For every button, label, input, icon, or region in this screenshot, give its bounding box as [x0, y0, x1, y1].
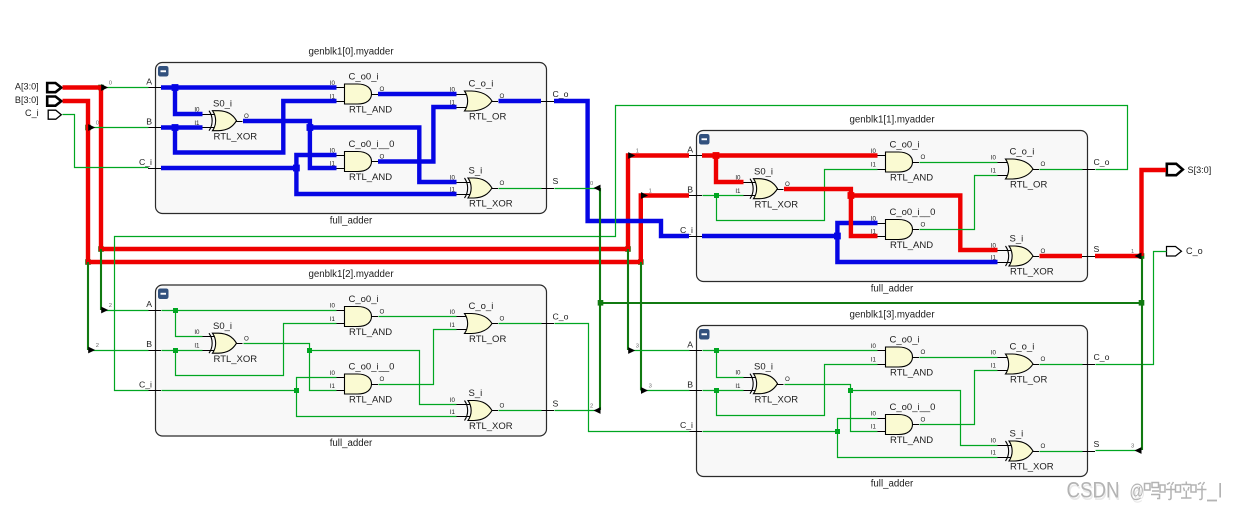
- svg-text:C_o0_i__0: C_o0_i__0: [349, 139, 395, 150]
- bus tap bit 1 S bit1 from genblk1[1].S: [1095, 249, 1142, 260]
- pin B of genblk1[2].myadder: [146, 339, 161, 351]
- xor gate S0_i (RTL_XOR) in genblk1[1]: [735, 166, 798, 210]
- wire A branch to S0_i I0 in genblk1[0]: [175, 88, 203, 115]
- svg-text:I0: I0: [330, 370, 336, 377]
- or gate C_o_i (RTL_OR) in genblk1[2]: [450, 301, 507, 345]
- xor gate S_i (RTL_XOR) in genblk1[0]: [450, 166, 513, 210]
- svg-text:RTL_OR: RTL_OR: [469, 334, 506, 345]
- wire C_o0__0 net to C_o_i I1 in genblk1[2]: [379, 330, 457, 385]
- svg-text:I0: I0: [871, 343, 877, 350]
- wire B to S0_i I1 in genblk1[1]: [703, 193, 744, 198]
- svg-text:RTL_AND: RTL_AND: [349, 105, 392, 116]
- svg-text:RTL_AND: RTL_AND: [349, 327, 392, 338]
- collapse icon of genblk1[3].myadder: [699, 329, 710, 340]
- and gate C_o0_i (RTL_AND) in genblk1[3]: [871, 335, 933, 379]
- svg-text:O: O: [244, 336, 249, 343]
- svg-text:O: O: [1041, 161, 1046, 168]
- svg-text:1: 1: [1131, 249, 1134, 255]
- pin S of genblk1[3].myadder: [1082, 439, 1100, 452]
- junction A bus at right trunk: [625, 246, 631, 252]
- svg-text:C_o: C_o: [553, 312, 569, 322]
- svg-text:O: O: [921, 349, 926, 356]
- svg-text:I0: I0: [450, 309, 456, 316]
- svg-text:C_o_i: C_o_i: [469, 301, 494, 312]
- svg-text:RTL_XOR: RTL_XOR: [755, 394, 799, 405]
- svg-text:C_o0_i__0: C_o0_i__0: [890, 207, 936, 218]
- svg-text:2: 2: [109, 303, 112, 309]
- wire C_o0__0 net to C_o_i I1 in genblk1[3]: [920, 371, 998, 425]
- pin C_o of genblk1[2].myadder: [541, 312, 569, 324]
- S bus trunk right vertical lower: [1141, 256, 1143, 450]
- wire C_o genblk1[3] to output port C_o: [1096, 252, 1167, 365]
- wire B[3:0] bus from port (red highlighted): [63, 101, 690, 262]
- junction B bus at bit0 tap: [85, 125, 91, 131]
- wire C_i branch to C_o0_i__0 I0 in genblk1[0]: [296, 155, 336, 168]
- or gate C_o_i (RTL_OR) in genblk1[0]: [450, 79, 507, 123]
- pin S of genblk1[1].myadder: [1082, 244, 1100, 257]
- wire S0 net S0_i O to C_o0_i__0 I1 in genblk1[1]: [784, 189, 878, 236]
- svg-text:I1: I1: [450, 409, 456, 416]
- svg-text:@: @: [1130, 482, 1145, 503]
- wire C_i to C_o0_i__0 in genblk1[3]: [703, 429, 841, 434]
- wire S0 net S0_i O to C_o0_i__0 I1 in genblk1[0]: [243, 121, 337, 168]
- bus tap bit 2 B bit2 to genblk1[2].B: [88, 343, 148, 354]
- pin C_i of genblk1[0].myadder: [139, 157, 161, 169]
- or gate C_o_i (RTL_OR) in genblk1[3]: [991, 342, 1048, 386]
- junction S bus left: [598, 300, 604, 306]
- svg-text:C_o_i: C_o_i: [1010, 147, 1035, 158]
- wire S0 net S0_i O to C_o0_i__0 I1 in genblk1[3]: [785, 385, 878, 432]
- svg-text:B[3:0]: B[3:0]: [15, 95, 39, 105]
- wire C_o output wire in genblk1[1]: [1040, 169, 1083, 171]
- wire S0 branch to S_i I0 in genblk1[3]: [851, 391, 998, 446]
- svg-text:C_o0_i__0: C_o0_i__0: [349, 362, 395, 373]
- wire B to S0_i I1 in genblk1[3]: [703, 388, 744, 393]
- svg-text:S_i: S_i: [1010, 429, 1024, 440]
- wire C_o0__0 net to C_o_i I1 in genblk1[0]: [378, 107, 457, 162]
- input port B[3:0]: [15, 95, 61, 106]
- pin B of genblk1[3].myadder: [687, 380, 702, 391]
- and gate C_o0_i__0 (RTL_AND) in genblk1[3]: [871, 402, 936, 446]
- bus tap bit 0 S bit0 from genblk1[0].S: [555, 181, 601, 192]
- wire C_i branch to S_i I1 in genblk1[1]: [837, 236, 997, 262]
- wire A branch to S0_i I0 in genblk1[3]: [717, 351, 744, 378]
- S bus trunk right vertical upper (red highlighted bit path): [1142, 170, 1167, 256]
- svg-text:RTL_AND: RTL_AND: [890, 173, 933, 184]
- svg-text:C_o0_i__0: C_o0_i__0: [890, 402, 936, 413]
- and gate C_o0_i__0 (RTL_AND) in genblk1[0]: [330, 139, 395, 183]
- pin C_i of genblk1[2].myadder: [139, 380, 161, 391]
- bus tap bit 2 A bit2 to genblk1[2].A: [101, 303, 148, 314]
- wire B to S0_i I1 in genblk1[2]: [162, 348, 203, 353]
- pin B of genblk1[0].myadder: [146, 117, 161, 128]
- svg-text:C_o0_i: C_o0_i: [349, 72, 379, 83]
- svg-text:RTL_AND: RTL_AND: [890, 240, 933, 251]
- pin S of genblk1[0].myadder: [541, 176, 559, 189]
- svg-text:RTL_AND: RTL_AND: [349, 395, 392, 406]
- svg-text:A: A: [146, 299, 152, 309]
- wire S0 branch to S_i I0 in genblk1[1]: [851, 196, 998, 251]
- svg-text:I0: I0: [991, 154, 997, 161]
- bus tap bit 3 A bit3 to genblk1[3].A: [628, 343, 689, 354]
- bus tap bit 0 B bit0 to genblk1[0].B: [88, 120, 148, 131]
- collapse icon of genblk1[1].myadder: [699, 134, 710, 145]
- pin C_o of genblk1[0].myadder: [541, 89, 569, 102]
- junction A bus at port corner: [98, 85, 104, 91]
- svg-text:S_i: S_i: [1010, 234, 1024, 245]
- svg-text:RTL_XOR: RTL_XOR: [214, 131, 258, 142]
- pin C_o of genblk1[3].myadder: [1082, 352, 1110, 365]
- bus tap bit 1 A bit1 to genblk1[1].A: [628, 148, 639, 159]
- junction S bus right: [1139, 300, 1145, 306]
- svg-text:3: 3: [636, 343, 639, 349]
- bus tap bit 2 S bit2 from genblk1[2].S: [555, 403, 601, 414]
- wire C_i to C_o0_i__0 in genblk1[0]: [161, 165, 300, 172]
- svg-text:S0_i: S0_i: [213, 98, 232, 109]
- wire C_i branch to S_i I1 in genblk1[0]: [296, 168, 456, 194]
- svg-text:I0: I0: [871, 410, 877, 417]
- svg-text:1: 1: [649, 188, 652, 194]
- svg-text:C_o: C_o: [553, 89, 569, 99]
- input port C_i: [25, 108, 61, 119]
- svg-text:I1: I1: [871, 423, 877, 430]
- svg-text:O: O: [500, 316, 505, 323]
- wire A to C_o0_i I0 in genblk1[3]: [703, 348, 878, 353]
- svg-text:genblk1[2].myadder: genblk1[2].myadder: [308, 269, 394, 280]
- wire S output wire in genblk1[0]: [499, 188, 542, 190]
- junction S bus at bit1 tap: [1139, 253, 1145, 259]
- svg-text:O: O: [380, 376, 385, 383]
- svg-text:I0: I0: [330, 302, 336, 309]
- svg-text:B: B: [146, 339, 152, 349]
- wire C_o0 net to C_o_i I0 in genblk1[2]: [379, 316, 457, 318]
- svg-text:I1: I1: [330, 316, 336, 323]
- full_adder module instance genblk1[0].myadder: [156, 46, 547, 226]
- svg-text:S0_i: S0_i: [754, 166, 773, 177]
- A bus trunk down to genblk1[3]: [627, 249, 629, 350]
- wire C_i branch to C_o0_i__0 I0 in genblk1[3]: [838, 419, 878, 432]
- svg-text:A[3:0]: A[3:0]: [15, 82, 39, 92]
- svg-text:S0_i: S0_i: [213, 321, 232, 332]
- output port C_o: [1167, 246, 1203, 256]
- svg-text:C_i: C_i: [139, 157, 152, 167]
- svg-text:O: O: [500, 180, 505, 187]
- and gate C_o0_i (RTL_AND) in genblk1[0]: [330, 72, 392, 116]
- svg-text:C_o_i: C_o_i: [469, 79, 494, 90]
- svg-text:genblk1[1].myadder: genblk1[1].myadder: [849, 114, 935, 125]
- svg-text:B: B: [687, 380, 693, 390]
- wire A branch to S0_i I0 in genblk1[1]: [716, 156, 744, 183]
- svg-text:2: 2: [590, 403, 593, 409]
- svg-text:C_i: C_i: [25, 108, 39, 118]
- and gate C_o0_i (RTL_AND) in genblk1[1]: [871, 140, 933, 184]
- svg-text:O: O: [1041, 356, 1046, 363]
- svg-text:RTL_AND: RTL_AND: [349, 172, 392, 183]
- pin A of genblk1[3].myadder: [687, 340, 702, 351]
- bus tap bit 3 B bit3 to genblk1[3].B: [641, 383, 690, 394]
- svg-text:RTL_XOR: RTL_XOR: [755, 199, 799, 210]
- svg-text:A: A: [687, 145, 693, 155]
- svg-text:0: 0: [109, 80, 112, 86]
- svg-text:I1: I1: [450, 322, 456, 329]
- watermark CSDN @呜呼啦呼_I: [1067, 478, 1222, 505]
- A bus trunk down to genblk1[2]: [100, 249, 102, 310]
- full_adder module instance genblk1[3].myadder: [697, 309, 1088, 489]
- junction B bus at left trunk: [85, 259, 91, 265]
- wire C_o output wire in genblk1[3]: [1040, 364, 1083, 366]
- xor gate S0_i (RTL_XOR) in genblk1[3]: [735, 361, 798, 405]
- full_adder module instance genblk1[2].myadder: [156, 269, 547, 449]
- xor gate S0_i (RTL_XOR) in genblk1[2]: [194, 321, 257, 365]
- full_adder module instance genblk1[1].myadder: [697, 114, 1088, 294]
- svg-text:S: S: [1094, 439, 1100, 449]
- B bus trunk down to genblk1[3]: [640, 262, 642, 390]
- svg-text:genblk1[3].myadder: genblk1[3].myadder: [849, 309, 935, 320]
- wire C_i branch to C_o0_i__0 I0 in genblk1[1]: [837, 223, 877, 236]
- wire S output wire in genblk1[3]: [1040, 451, 1083, 453]
- wire S0 branch to S_i I0 in genblk1[0]: [310, 128, 457, 183]
- svg-text:O: O: [500, 403, 505, 410]
- collapse icon of genblk1[0].myadder: [158, 66, 169, 77]
- svg-text:B: B: [687, 185, 693, 195]
- pin A of genblk1[0].myadder: [146, 77, 161, 88]
- svg-text:S: S: [553, 399, 559, 409]
- wire S output wire in genblk1[2]: [499, 410, 542, 412]
- svg-text:RTL_OR: RTL_OR: [1010, 180, 1047, 191]
- svg-text:A: A: [687, 340, 693, 350]
- svg-text:C_o_i: C_o_i: [1010, 342, 1035, 353]
- svg-text:I0: I0: [194, 329, 200, 336]
- svg-text:0: 0: [96, 120, 99, 126]
- svg-text:I0: I0: [735, 369, 741, 376]
- svg-text:RTL_XOR: RTL_XOR: [1010, 267, 1054, 278]
- svg-text:I1: I1: [194, 342, 200, 349]
- svg-text:RTL_OR: RTL_OR: [1010, 375, 1047, 386]
- wire C_i from port to genblk1[0]: [63, 115, 149, 168]
- svg-text:RTL_AND: RTL_AND: [890, 435, 933, 446]
- wire carry C_o genblk1[1] to C_i genblk1[2]: [115, 106, 1128, 391]
- wire A[3:0] bus from port (red highlighted): [63, 88, 690, 250]
- svg-text:I1: I1: [991, 362, 997, 369]
- svg-text:C_o0_i: C_o0_i: [890, 140, 920, 151]
- svg-text:C_o: C_o: [1186, 246, 1203, 256]
- wire C_i to C_o0_i__0 in genblk1[2]: [162, 388, 300, 393]
- svg-text:S0_i: S0_i: [754, 361, 773, 372]
- svg-text:C_i: C_i: [680, 225, 693, 235]
- wire C_i to C_o0_i__0 in genblk1[1]: [702, 233, 841, 240]
- svg-text:B: B: [146, 117, 152, 127]
- svg-text:I1: I1: [330, 383, 336, 390]
- bus tap bit 0 A bit0 to genblk1[0].A: [101, 80, 148, 91]
- wire S0 branch to S_i I0 in genblk1[2]: [310, 351, 457, 405]
- svg-text:O: O: [921, 154, 926, 161]
- wire carry C_o genblk1[2] to C_i genblk1[3]: [555, 324, 690, 432]
- svg-text:I1: I1: [991, 449, 997, 456]
- wire A to C_o0_i I0 in genblk1[2]: [162, 308, 337, 313]
- svg-text:CSDN: CSDN: [1067, 478, 1120, 503]
- wire B branch to C_o0_i I1 in genblk1[0]: [175, 101, 337, 153]
- pin C_i of genblk1[3].myadder: [680, 420, 702, 432]
- svg-text:I1: I1: [991, 167, 997, 174]
- pin C_o of genblk1[1].myadder: [1082, 157, 1110, 170]
- bus tap bit 1 B bit1 to genblk1[1].B: [641, 188, 652, 199]
- xor gate S_i (RTL_XOR) in genblk1[2]: [450, 388, 513, 432]
- svg-text:I0: I0: [991, 349, 997, 356]
- svg-text:genblk1[0].myadder: genblk1[0].myadder: [308, 46, 394, 57]
- junction A bus at left trunk: [98, 246, 104, 252]
- svg-text:C_o0_i: C_o0_i: [349, 294, 379, 305]
- svg-text:O: O: [921, 222, 926, 229]
- wire B to S0_i I1 in genblk1[0]: [161, 124, 203, 131]
- svg-text:I1: I1: [871, 356, 877, 363]
- svg-text:3: 3: [1131, 443, 1134, 449]
- svg-text:full_adder: full_adder: [871, 478, 914, 489]
- svg-text:RTL_XOR: RTL_XOR: [1010, 462, 1054, 473]
- wire S0 net S0_i O to C_o0_i__0 I1 in genblk1[2]: [244, 344, 337, 391]
- svg-text:I0: I0: [991, 437, 997, 444]
- xor gate S_i (RTL_XOR) in genblk1[1]: [991, 234, 1054, 278]
- wire C_o output wire in genblk1[0]: [499, 99, 542, 103]
- svg-text:O: O: [1041, 443, 1046, 450]
- svg-text:RTL_AND: RTL_AND: [890, 368, 933, 379]
- svg-text:2: 2: [96, 343, 99, 349]
- svg-text:RTL_XOR: RTL_XOR: [214, 354, 258, 365]
- junction B bus at right trunk: [638, 259, 644, 265]
- wire C_o0 net to C_o_i I0 in genblk1[1]: [920, 162, 998, 164]
- wire S output wire in genblk1[1]: [1040, 254, 1083, 258]
- svg-text:C_o: C_o: [1094, 352, 1110, 362]
- svg-text:full_adder: full_adder: [330, 438, 373, 449]
- pin A of genblk1[2].myadder: [146, 299, 161, 311]
- and gate C_o0_i__0 (RTL_AND) in genblk1[1]: [871, 207, 936, 251]
- svg-text:1: 1: [636, 148, 639, 154]
- svg-text:RTL_XOR: RTL_XOR: [469, 421, 513, 432]
- wire C_o0 net to C_o_i I0 in genblk1[3]: [920, 357, 998, 359]
- wire B branch to C_o0_i I1 in genblk1[3]: [717, 365, 878, 416]
- wire A to C_o0_i I0 in genblk1[0]: [161, 84, 337, 91]
- bus tap bit 3 S bit3 from genblk1[3].S: [1096, 443, 1142, 454]
- wire B branch to C_o0_i I1 in genblk1[2]: [176, 324, 337, 376]
- xor gate S0_i (RTL_XOR) in genblk1[0]: [194, 98, 257, 142]
- svg-text:full_adder: full_adder: [330, 215, 373, 226]
- svg-text:S: S: [1094, 244, 1100, 254]
- svg-text:I1: I1: [871, 161, 877, 168]
- S bus trunk horizontal: [600, 302, 1142, 304]
- wire A to C_o0_i I0 in genblk1[1]: [702, 152, 878, 159]
- svg-text:O: O: [785, 376, 790, 383]
- and gate C_o0_i__0 (RTL_AND) in genblk1[2]: [330, 362, 395, 406]
- wire C_i branch to S_i I1 in genblk1[2]: [297, 391, 457, 417]
- collapse icon of genblk1[2].myadder: [158, 289, 169, 300]
- svg-text:C_o: C_o: [1094, 157, 1110, 167]
- svg-text:S[3:0]: S[3:0]: [1188, 165, 1212, 175]
- output port S[3:0]: [1167, 164, 1211, 175]
- wire C_i branch to C_o0_i__0 I0 in genblk1[2]: [297, 378, 337, 391]
- svg-text:0: 0: [590, 181, 593, 187]
- wire A branch to S0_i I0 in genblk1[2]: [176, 311, 203, 337]
- wire C_o output wire in genblk1[2]: [499, 323, 542, 325]
- S bus trunk left vertical: [599, 188, 601, 410]
- wire C_o0__0 net to C_o_i I1 in genblk1[1]: [920, 176, 998, 230]
- svg-text:RTL_XOR: RTL_XOR: [469, 199, 513, 210]
- pin S of genblk1[2].myadder: [541, 399, 559, 411]
- svg-text:C_i: C_i: [139, 380, 152, 390]
- pin C_i of genblk1[1].myadder: [680, 225, 702, 237]
- wire carry C_o genblk1[0] to C_i genblk1[1] (blue selected): [554, 101, 689, 236]
- svg-text:I1: I1: [735, 188, 741, 195]
- B bus trunk down to genblk1[2]: [87, 262, 89, 350]
- svg-text:3: 3: [649, 383, 652, 389]
- wire B branch to C_o0_i I1 in genblk1[1]: [717, 170, 878, 221]
- wire C_o0 net to C_o_i I0 in genblk1[0]: [378, 92, 457, 96]
- wire C_i branch to S_i I1 in genblk1[3]: [838, 432, 998, 458]
- and gate C_o0_i (RTL_AND) in genblk1[2]: [330, 294, 392, 338]
- svg-text:S: S: [553, 176, 559, 186]
- svg-text:RTL_OR: RTL_OR: [469, 112, 506, 123]
- svg-text:A: A: [146, 77, 152, 87]
- svg-text:I0: I0: [450, 397, 456, 404]
- pin B of genblk1[1].myadder: [687, 185, 702, 196]
- xor gate S_i (RTL_XOR) in genblk1[3]: [991, 429, 1054, 473]
- svg-text:S_i: S_i: [469, 388, 483, 399]
- input port A[3:0]: [15, 82, 61, 93]
- svg-text:C_i: C_i: [680, 420, 693, 430]
- svg-text:full_adder: full_adder: [871, 283, 914, 294]
- or gate C_o_i (RTL_OR) in genblk1[1]: [991, 147, 1048, 191]
- svg-text:S_i: S_i: [469, 166, 483, 177]
- svg-text:C_o0_i: C_o0_i: [890, 335, 920, 346]
- svg-text:O: O: [380, 309, 385, 316]
- svg-text:I1: I1: [735, 383, 741, 390]
- pin A of genblk1[1].myadder: [687, 145, 702, 156]
- svg-text:O: O: [921, 417, 926, 424]
